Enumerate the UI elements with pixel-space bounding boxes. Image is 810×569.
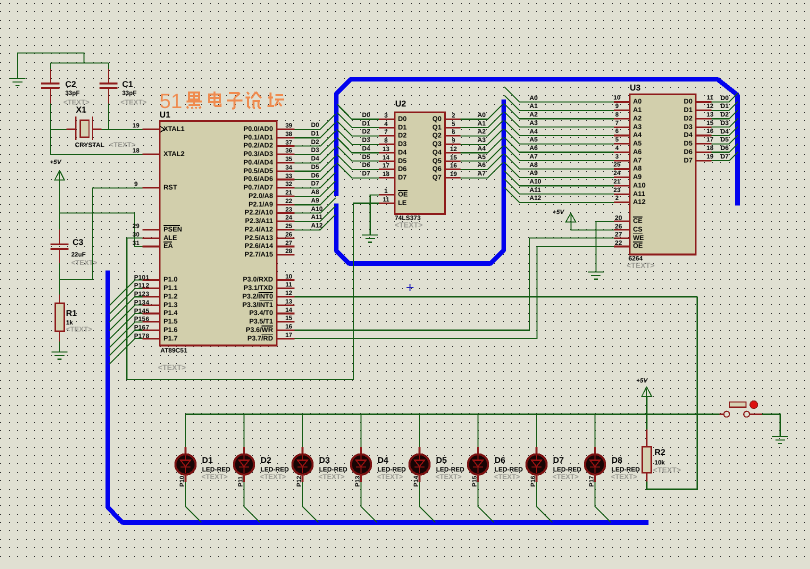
svg-text:26: 26 (615, 223, 623, 230)
svg-text:P0.2/AD2: P0.2/AD2 (244, 143, 274, 150)
pin 21 A10 U3 (614, 185, 630, 187)
wire P1.3 bus entry (110, 305, 143, 331)
svg-text:D6: D6 (684, 149, 693, 156)
svg-text:D0: D0 (311, 122, 320, 129)
bus main top (U1-U2-U3 data bus) (336, 79, 737, 205)
pin 35 P0.4/AD4 U1 (277, 162, 295, 164)
svg-text:2: 2 (146, 283, 150, 290)
capacitor C1 (99, 69, 117, 104)
svg-text:A9: A9 (530, 170, 539, 177)
wire U2 Q3 to bus / net A3 (461, 129, 503, 144)
svg-text:6: 6 (452, 129, 456, 136)
pin 19 Q7 U2 (445, 177, 461, 179)
pin 3 P1.2 U1 (143, 296, 160, 298)
wire P1.4 bus entry (110, 314, 143, 340)
pin 12 D1 U3 (696, 109, 712, 111)
wire bus to U2 D4 (337, 138, 379, 153)
svg-text:21: 21 (614, 178, 621, 185)
svg-text:37: 37 (285, 139, 292, 146)
pin 9 A1 U3 (614, 109, 630, 111)
wire P0.4 to bus / net D4 (295, 148, 336, 163)
pin 4 D1 U2 (379, 127, 395, 129)
pin 12 P3.2/INT0 U1 (277, 296, 295, 298)
svg-text:P2.0/A8: P2.0/A8 (248, 193, 273, 200)
svg-text:<TEXT>: <TEXT> (121, 100, 147, 107)
svg-text:U2: U2 (395, 99, 406, 109)
svg-text:A11: A11 (311, 214, 323, 221)
svg-text:18: 18 (133, 148, 140, 155)
svg-text:26: 26 (285, 232, 292, 239)
svg-text:D1: D1 (362, 120, 371, 127)
wire C2 top lead (49, 63, 51, 69)
wire P0.2 to bus / net D2 (295, 131, 336, 146)
svg-text:D3: D3 (362, 137, 371, 144)
svg-text:1: 1 (146, 274, 150, 281)
pin 19 XTAL1 U1 (143, 128, 160, 130)
svg-text:P0.1/AD1: P0.1/AD1 (244, 134, 274, 141)
pin 7 D2 U2 (379, 135, 395, 137)
svg-text:+5V: +5V (50, 159, 62, 166)
wire U2 OE to ground (370, 195, 379, 235)
svg-text:12: 12 (450, 146, 457, 153)
pin 9 RST U1 (143, 187, 160, 189)
svg-text:10: 10 (285, 273, 292, 280)
wire C3 to R1 (59, 263, 61, 295)
svg-text:33pF: 33pF (65, 90, 80, 97)
svg-text:20: 20 (615, 215, 623, 222)
svg-text:38: 38 (285, 131, 292, 138)
wire LED anode rail (186, 413, 720, 415)
ground below R1 (52, 352, 68, 359)
origin marker cross (407, 284, 414, 291)
svg-text:C3: C3 (73, 237, 84, 247)
pin 2 Q0 U2 (445, 118, 461, 120)
svg-text:P14: P14 (413, 475, 420, 487)
svg-text:LED-RED: LED-RED (378, 467, 407, 474)
svg-text:D2: D2 (311, 139, 320, 146)
svg-text:7: 7 (146, 325, 150, 332)
svg-text:P16: P16 (530, 475, 537, 487)
svg-text:R1: R1 (66, 308, 77, 318)
wire P1.7 bus entry (110, 339, 143, 365)
wire R1 to ground (59, 342, 61, 353)
pin 16 P3.6/WR U1 (277, 329, 295, 331)
pin 6 Q2 U2 (445, 135, 461, 137)
svg-text:LED-RED: LED-RED (553, 467, 582, 474)
svg-text:2: 2 (615, 195, 619, 202)
wire bus to U3 A10 (504, 171, 614, 186)
op-amp U1 body (AT89C51 microcontroller) (160, 121, 277, 346)
svg-text:<TEXT>: <TEXT> (553, 474, 579, 481)
svg-text:<TEXT>: <TEXT> (260, 474, 286, 481)
svg-text:23: 23 (614, 187, 621, 194)
svg-text:D6: D6 (311, 172, 320, 179)
pin 14 P3.4/T0 U1 (277, 313, 295, 315)
svg-text:D3: D3 (319, 455, 330, 465)
wire P1.1 bus entry (110, 288, 143, 314)
wire LED D1 cathode to bus (186, 482, 202, 523)
title glyphs (186, 92, 284, 109)
wire rail to LED D1 (185, 414, 187, 447)
wire U3 D6 to bus (712, 144, 738, 153)
pin 39 P0.0/AD0 U1 (277, 128, 295, 130)
pin 6 A4 U3 (614, 135, 630, 137)
svg-text:27: 27 (285, 240, 292, 247)
svg-text:17: 17 (707, 137, 714, 144)
svg-text:P15: P15 (134, 316, 146, 323)
svg-text:LED-RED: LED-RED (612, 467, 641, 474)
svg-text:P1.0: P1.0 (164, 277, 178, 284)
wire bus to U2 D3 (337, 129, 379, 144)
svg-text:A9: A9 (311, 198, 320, 205)
capacitor C2 (41, 69, 59, 104)
svg-text:A10: A10 (311, 206, 323, 213)
svg-text:14: 14 (285, 307, 292, 314)
push button (719, 401, 762, 417)
svg-text:A7: A7 (478, 171, 487, 178)
svg-text:A5: A5 (530, 137, 539, 144)
LED D5 (409, 447, 429, 482)
svg-text:LED-RED: LED-RED (261, 467, 290, 474)
wire rail to LED D2 (243, 414, 245, 447)
pin 36 P0.3/AD3 U1 (277, 153, 295, 155)
pin 1 P1.0 U1 (143, 279, 160, 281)
wire C2 to XTAL2 (50, 104, 142, 155)
wire U3 D2 to bus (712, 110, 738, 119)
svg-text:A0: A0 (633, 99, 642, 106)
svg-text:D0: D0 (362, 112, 371, 119)
wire LED D5 cathode to bus (420, 482, 436, 523)
svg-text:A11: A11 (633, 191, 645, 198)
svg-text:P0.7/AD7: P0.7/AD7 (244, 185, 274, 192)
wire rail to LED D3 (302, 414, 304, 447)
wire LED D3 cathode to bus (303, 482, 319, 523)
svg-text:P2.5/A13: P2.5/A13 (245, 235, 274, 242)
svg-text:30: 30 (133, 231, 140, 238)
wire bus to U3 A6 (504, 137, 614, 152)
wire U2 Q0 to bus / net A0 (461, 104, 503, 119)
svg-text:XTAL1: XTAL1 (164, 126, 185, 133)
wire R2 bottom to INT0 node (647, 297, 698, 490)
pin 23 A11 U3 (614, 193, 630, 195)
svg-text:A2: A2 (530, 112, 539, 119)
svg-text:9: 9 (452, 138, 456, 145)
svg-text:A4: A4 (478, 146, 487, 153)
svg-text:OE: OE (398, 192, 408, 199)
svg-text:16: 16 (450, 163, 457, 170)
svg-text:<TEXT>: <TEXT> (158, 363, 187, 372)
svg-text:8: 8 (384, 138, 388, 145)
pin 10 P3.0/RXD U1 (277, 279, 295, 281)
svg-text:D6: D6 (721, 145, 730, 152)
svg-text:Q0: Q0 (432, 116, 441, 123)
svg-text:17: 17 (285, 332, 292, 339)
svg-text:WE: WE (633, 235, 644, 242)
svg-text:A3: A3 (530, 120, 539, 127)
svg-text:25: 25 (285, 223, 292, 230)
svg-text:OE: OE (633, 243, 643, 250)
wire U3 D1 to bus (712, 102, 738, 111)
svg-text:CE: CE (633, 218, 643, 225)
svg-text:22uF: 22uF (71, 252, 86, 259)
pin 10 A0 U3 (614, 101, 630, 103)
wire bus to U3 A3 (504, 112, 614, 127)
svg-text:P3.6/WR: P3.6/WR (246, 327, 273, 334)
wire bus to U3 A9 (504, 162, 614, 177)
svg-text:D5: D5 (721, 137, 730, 144)
svg-text:D4: D4 (398, 149, 407, 156)
svg-text:4: 4 (615, 145, 619, 152)
svg-text:<TEXT>: <TEXT> (66, 327, 92, 334)
svg-text:D0: D0 (721, 95, 730, 102)
pin 3 D0 U2 (379, 118, 395, 120)
wire P0.7 to bus / net D7 (295, 173, 336, 188)
svg-text:<TEXT>: <TEXT> (202, 474, 228, 481)
svg-text:11: 11 (707, 95, 714, 102)
svg-text:9: 9 (615, 103, 619, 110)
svg-text:22: 22 (285, 198, 292, 205)
svg-text:<TEXT>: <TEXT> (494, 474, 520, 481)
pin 18 D7 U2 (379, 177, 395, 179)
svg-text:A1: A1 (633, 107, 642, 114)
svg-text:EA: EA (164, 243, 174, 250)
svg-text:2: 2 (452, 113, 456, 120)
svg-text:13: 13 (707, 111, 714, 118)
pin 17 D6 U2 (379, 168, 395, 170)
svg-text:A12: A12 (633, 199, 646, 206)
wire rail to LED D4 (360, 414, 362, 447)
svg-text:A2: A2 (478, 129, 487, 136)
wire bus to U2 D5 (337, 146, 379, 161)
wire C1 to XTAL1 (108, 104, 110, 130)
svg-text:A1: A1 (478, 120, 487, 127)
svg-text:+5V: +5V (636, 377, 648, 384)
pin 18 D6 U3 (696, 151, 712, 153)
svg-text:P1.5: P1.5 (164, 319, 178, 326)
svg-text:D5: D5 (362, 154, 371, 161)
svg-text:P10: P10 (134, 274, 146, 281)
svg-text:P3.0/RXD: P3.0/RXD (243, 277, 273, 284)
svg-text:Q2: Q2 (432, 133, 441, 140)
pin 9 Q3 U2 (445, 143, 461, 145)
svg-text:<TEXT>: <TEXT> (436, 474, 462, 481)
svg-text:P0.5/AD5: P0.5/AD5 (244, 168, 274, 175)
svg-text:14: 14 (383, 154, 390, 161)
svg-text:A8: A8 (530, 162, 539, 169)
LED D4 (351, 447, 371, 482)
pin 34 P0.5/AD5 U1 (277, 170, 295, 172)
svg-text:P2.2/A10: P2.2/A10 (245, 210, 274, 217)
svg-text:Q7: Q7 (432, 175, 441, 182)
wire U3 D5 to bus (712, 135, 738, 144)
wire button to ground (762, 414, 780, 436)
svg-text:D2: D2 (721, 112, 730, 119)
wire bus to U2 D6 (337, 154, 379, 169)
LED D3 (292, 447, 312, 482)
svg-text:D5: D5 (684, 141, 693, 148)
svg-text:LED-RED: LED-RED (319, 467, 348, 474)
crystal X1 (67, 116, 102, 140)
wire bus to U3 A7 (504, 146, 614, 161)
svg-text:P11: P11 (237, 476, 244, 487)
pin 29 PSEN U1 (143, 229, 160, 231)
svg-text:D4: D4 (362, 146, 371, 153)
svg-text:A11: A11 (530, 187, 542, 194)
svg-text:3: 3 (384, 113, 388, 120)
svg-text:3: 3 (615, 153, 619, 160)
wire XTAL1 left segment (50, 128, 66, 130)
svg-text:LED-RED: LED-RED (436, 467, 465, 474)
svg-text:D5: D5 (436, 455, 447, 465)
wire RST node (60, 188, 143, 280)
pin 24 P2.3/A11 U1 (277, 220, 295, 222)
pin 11 LE U2 (379, 202, 395, 204)
svg-text:7: 7 (615, 120, 619, 127)
wire P0.1 to bus / net D1 (295, 123, 336, 138)
svg-text:D4: D4 (684, 132, 693, 139)
svg-text:31: 31 (133, 240, 140, 247)
svg-text:P2.3/A11: P2.3/A11 (245, 218, 273, 225)
pin 7 P1.6 U1 (143, 329, 160, 331)
pin 5 A5 U3 (614, 143, 630, 145)
pin 11 D0 U3 (696, 101, 712, 103)
pin 5 P1.4 U1 (143, 313, 160, 315)
svg-text:A12: A12 (530, 195, 542, 202)
svg-text:D2: D2 (398, 133, 407, 140)
wire +5V to EA (60, 213, 143, 246)
pin 38 P0.1/AD1 U1 (277, 137, 295, 139)
pin 33 P0.6/AD6 U1 (277, 179, 295, 181)
svg-text:12: 12 (707, 103, 714, 110)
pin 17 P3.7/RD U1 (277, 338, 295, 340)
svg-text:15: 15 (707, 120, 714, 127)
svg-text:Q4: Q4 (432, 149, 441, 156)
svg-text:18: 18 (707, 145, 714, 152)
wire P2.4 to bus / net A12 (295, 215, 336, 230)
wire bus to U2 D7 (337, 163, 379, 178)
svg-text:A4: A4 (633, 132, 642, 139)
svg-text:A7: A7 (530, 153, 539, 160)
wire U3 D3 to bus (712, 118, 738, 127)
svg-text:18: 18 (383, 171, 390, 178)
pin 27 WE U3 (614, 237, 630, 239)
wire +5V down (59, 180, 61, 230)
pin 31 EA U1 (143, 246, 160, 248)
svg-text:<TEXT>: <TEXT> (377, 474, 403, 481)
pin 25 A8 U3 (614, 168, 630, 170)
svg-text:<TEXT>: <TEXT> (395, 221, 424, 230)
+5V power (reset circuit) (50, 159, 65, 180)
svg-text:D0: D0 (684, 99, 693, 106)
LED D1 (175, 447, 195, 482)
svg-text:P16: P16 (134, 325, 146, 332)
wire P0.5 to bus / net D5 (295, 156, 336, 171)
+5V power (U3 CS) (553, 209, 576, 222)
pin 6 P1.5 U1 (143, 321, 160, 323)
svg-text:C2: C2 (65, 79, 76, 89)
svg-text:A10: A10 (633, 182, 646, 189)
pin 30 ALE U1 (143, 237, 160, 239)
svg-text:36: 36 (285, 148, 292, 155)
svg-text:P13: P13 (354, 475, 361, 487)
svg-text:D3: D3 (684, 124, 693, 131)
resistor R2 (642, 430, 651, 482)
svg-text:Q6: Q6 (432, 166, 441, 173)
svg-text:5: 5 (615, 137, 619, 144)
+5V power (R2) (636, 377, 651, 396)
pin 18 XTAL2 U1 (143, 153, 160, 155)
wire bus to U3 A11 (504, 179, 614, 194)
svg-text:35: 35 (285, 156, 292, 163)
svg-text:33: 33 (285, 173, 292, 180)
pin 16 D4 U3 (696, 135, 712, 137)
svg-text:CS: CS (633, 227, 643, 234)
wire U3 CE to ground (596, 221, 614, 272)
wire LED D2 cathode to bus (244, 482, 260, 523)
svg-text:D6: D6 (398, 166, 407, 173)
wire rail to LED D8 (594, 414, 596, 447)
wire ground to cap rail (18, 53, 85, 78)
svg-text:P13: P13 (134, 299, 146, 306)
svg-text:A12: A12 (311, 223, 323, 230)
wire U3 D0 to bus (712, 93, 738, 102)
pin 8 P1.7 U1 (143, 338, 160, 340)
svg-text:Q1: Q1 (432, 124, 441, 131)
svg-text:P0.6/AD6: P0.6/AD6 (244, 176, 274, 183)
svg-text:P1.6: P1.6 (164, 327, 178, 334)
svg-text:A5: A5 (478, 154, 487, 161)
svg-text:P1.2: P1.2 (164, 293, 178, 300)
wire U2 Q2 to bus / net A2 (461, 121, 503, 136)
svg-text:P2.4/A12: P2.4/A12 (245, 227, 274, 234)
wire bus to U2 D2 (337, 121, 379, 136)
svg-text:16: 16 (285, 324, 292, 331)
wire LED D6 cathode to bus (478, 482, 494, 523)
wire P1.0 bus entry (110, 280, 143, 306)
svg-text:A6: A6 (530, 145, 539, 152)
wire P1.6 bus entry (110, 330, 143, 356)
svg-text:P3.7/RD: P3.7/RD (247, 335, 273, 342)
svg-text:A8: A8 (311, 189, 320, 196)
wire P0.3 to bus / net D3 (295, 139, 336, 154)
svg-text:4: 4 (146, 299, 150, 306)
wire LED D7 cathode to bus (537, 482, 553, 523)
svg-text:5: 5 (146, 308, 150, 315)
svg-text:<TEXT>: <TEXT> (319, 474, 345, 481)
svg-text:D4: D4 (721, 128, 730, 135)
wire bus to U3 A8 (504, 154, 614, 169)
pin 25 P2.4/A12 U1 (277, 229, 295, 231)
svg-text:19: 19 (707, 153, 714, 160)
svg-text:PSEN: PSEN (164, 226, 183, 233)
svg-text:21: 21 (285, 190, 292, 197)
svg-text:13: 13 (383, 146, 390, 153)
wire U2 Q5 to bus / net A5 (461, 146, 503, 161)
svg-text:D1: D1 (721, 103, 730, 110)
svg-text:Q3: Q3 (432, 141, 441, 148)
wire P3.2 INT0 to button node (295, 296, 698, 298)
wire U2 Q4 to bus / net A4 (461, 138, 503, 153)
svg-text:P2.1/A9: P2.1/A9 (248, 201, 273, 208)
svg-text:D1: D1 (398, 124, 407, 131)
svg-text:P0.4/AD4: P0.4/AD4 (244, 160, 274, 167)
pin 26 CS U3 (614, 229, 630, 231)
svg-text:P0.3/AD3: P0.3/AD3 (244, 151, 274, 158)
svg-text:D1: D1 (202, 455, 213, 465)
svg-text:A4: A4 (530, 128, 539, 135)
svg-text:22: 22 (615, 240, 623, 247)
wire P1.2 bus entry (110, 297, 143, 323)
